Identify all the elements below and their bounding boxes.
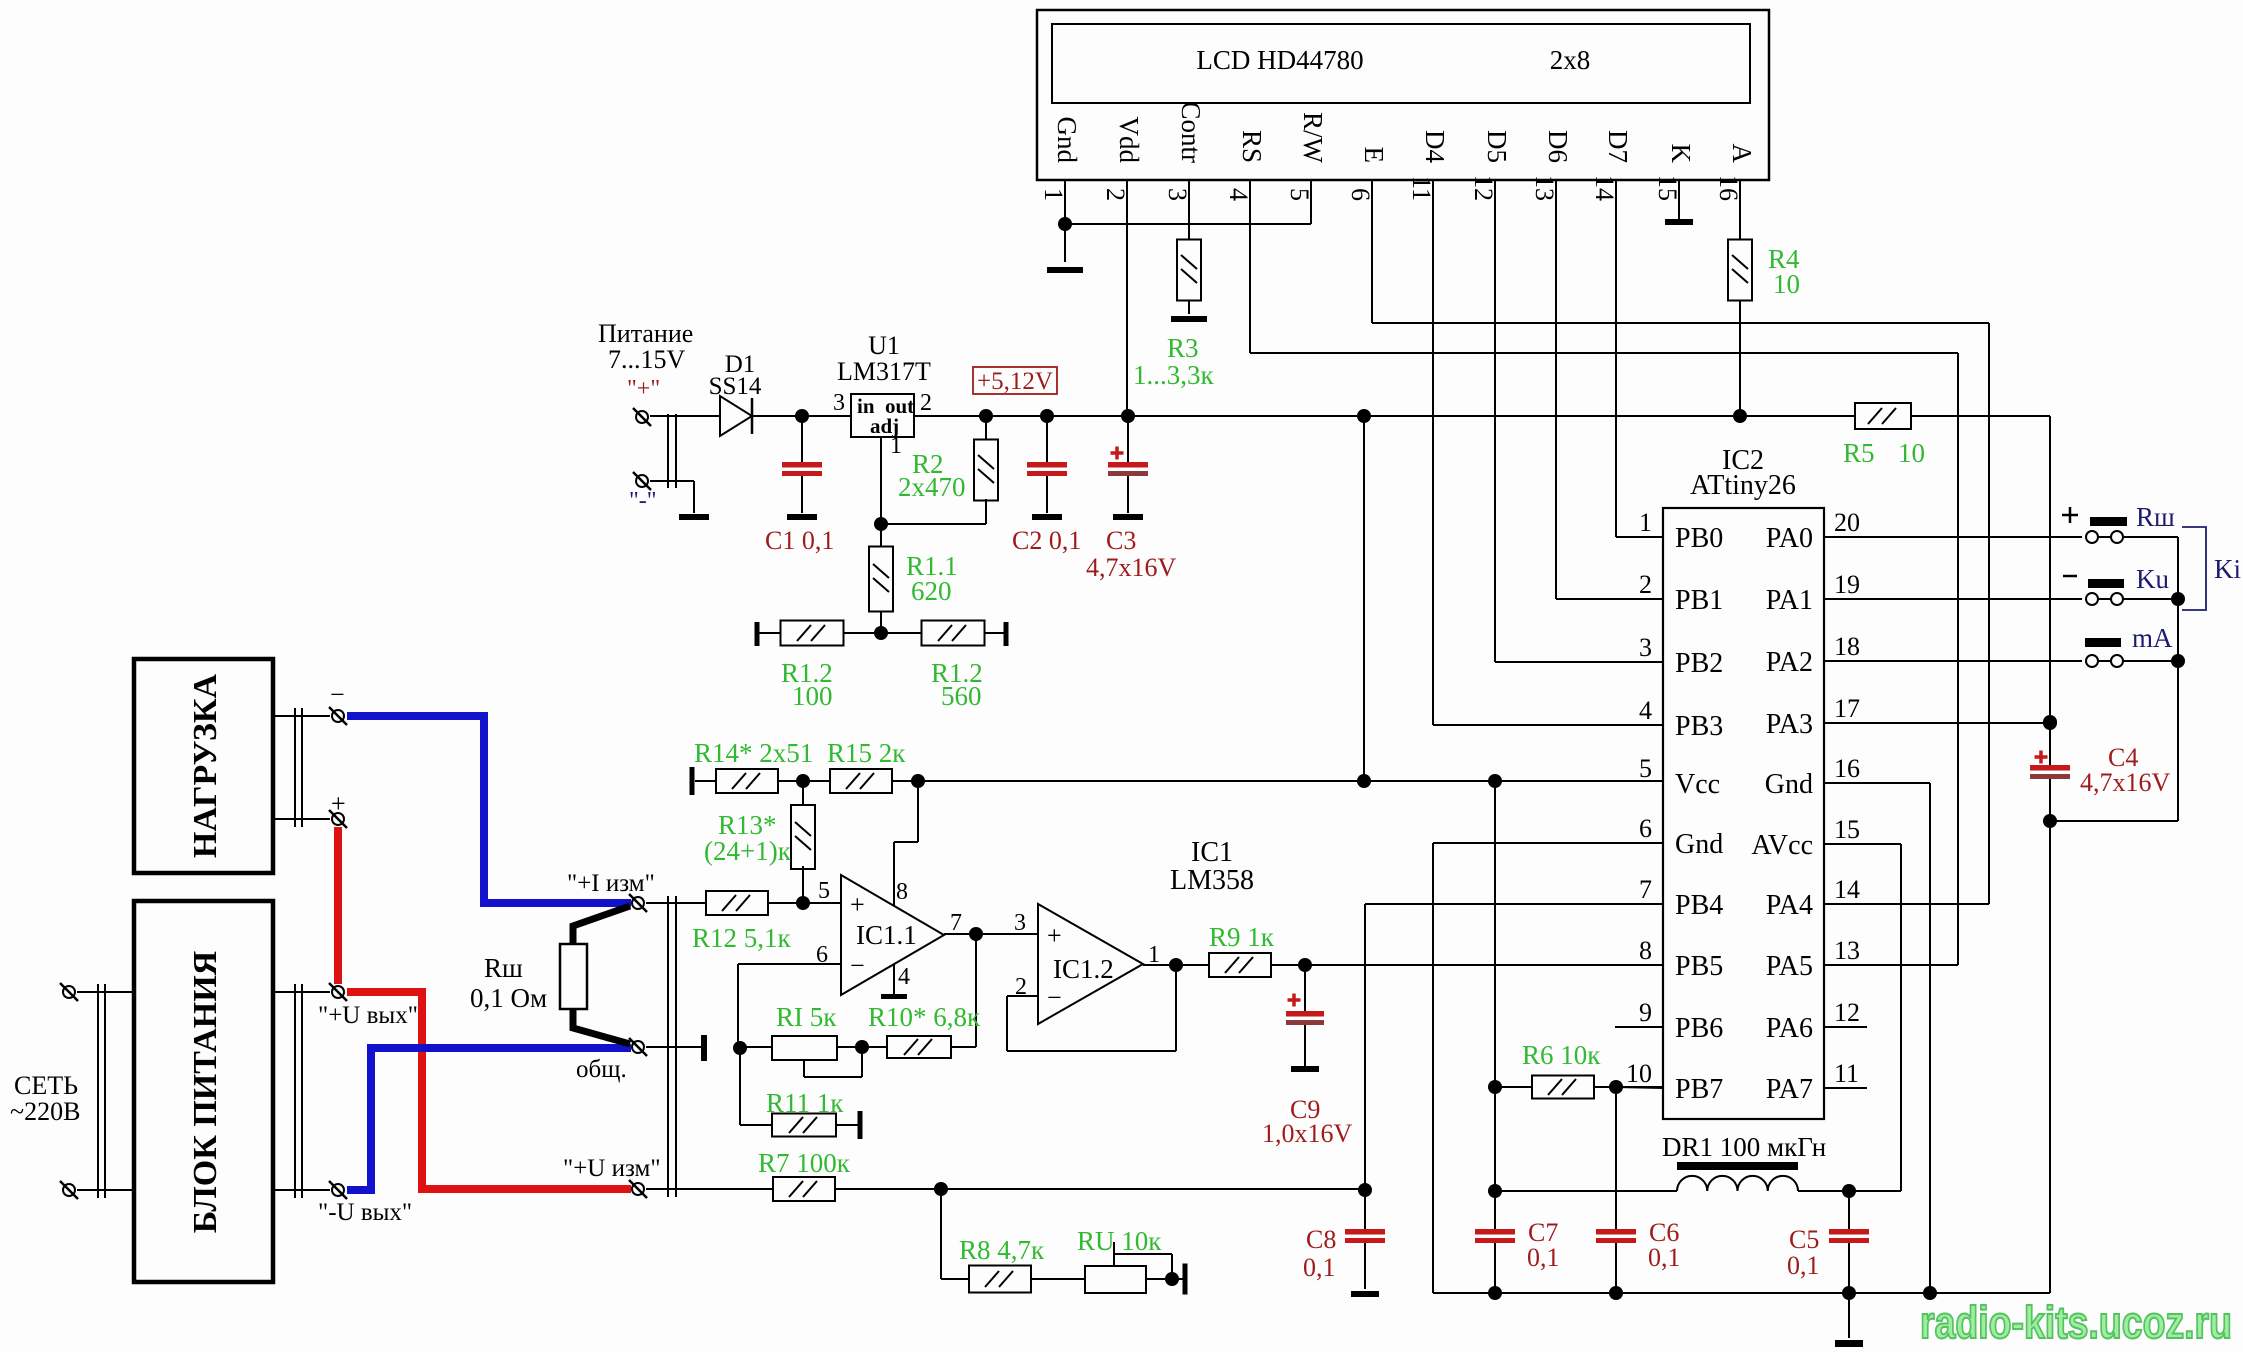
svg-text:1: 1 <box>1039 188 1068 201</box>
svg-text:Gnd: Gnd <box>1675 829 1723 860</box>
svg-text:PA4: PA4 <box>1766 890 1813 921</box>
svg-text:+5,12V: +5,12V <box>977 368 1053 395</box>
svg-text:Ku: Ku <box>2136 564 2169 594</box>
svg-text:radio-kits.ucoz.ru: radio-kits.ucoz.ru <box>1920 1297 2232 1348</box>
svg-text:560: 560 <box>941 681 982 711</box>
svg-text:19: 19 <box>1834 570 1860 599</box>
svg-text:E: E <box>1359 147 1389 164</box>
svg-text:7...15V: 7...15V <box>608 345 686 374</box>
svg-text:IC1.1: IC1.1 <box>856 920 917 950</box>
svg-text:PB1: PB1 <box>1675 585 1723 616</box>
svg-text:Rш: Rш <box>484 953 523 983</box>
svg-text:+: + <box>850 890 865 919</box>
svg-text:Rш: Rш <box>2136 502 2175 532</box>
svg-text:−: − <box>850 951 865 980</box>
svg-text:Gnd: Gnd <box>1052 117 1082 164</box>
svg-text:U1: U1 <box>868 331 900 360</box>
svg-text:R3: R3 <box>1167 333 1199 363</box>
svg-text:1,0x16V: 1,0x16V <box>1262 1119 1353 1148</box>
svg-text:"+I изм": "+I изм" <box>567 870 655 897</box>
svg-text:R6 10к: R6 10к <box>1522 1040 1601 1070</box>
svg-text:14: 14 <box>1834 875 1860 904</box>
svg-text:LCD HD44780: LCD HD44780 <box>1196 45 1363 75</box>
svg-text:R11 1к: R11 1к <box>766 1088 844 1118</box>
svg-text:PB4: PB4 <box>1675 890 1723 921</box>
svg-text:Contr: Contr <box>1176 101 1206 163</box>
svg-text:18: 18 <box>1834 632 1860 661</box>
svg-text:Vcc: Vcc <box>1675 769 1720 800</box>
svg-text:R5: R5 <box>1843 438 1875 468</box>
svg-text:R15 2к: R15 2к <box>827 738 906 768</box>
svg-text:PB7: PB7 <box>1675 1074 1723 1105</box>
svg-text:"+U вых": "+U вых" <box>318 1002 418 1029</box>
svg-text:общ.: общ. <box>576 1056 627 1083</box>
svg-text:13: 13 <box>1530 175 1559 201</box>
svg-text:PB5: PB5 <box>1675 951 1723 982</box>
svg-text:IC1.2: IC1.2 <box>1053 954 1114 984</box>
svg-text:3: 3 <box>1014 910 1026 936</box>
svg-text:0,1: 0,1 <box>1303 1253 1336 1282</box>
svg-text:mA: mA <box>2132 623 2173 653</box>
svg-text:SS14: SS14 <box>709 373 762 400</box>
svg-text:Питание: Питание <box>598 319 693 348</box>
svg-text:D7: D7 <box>1603 130 1633 163</box>
svg-text:2: 2 <box>1101 188 1130 201</box>
svg-text:RI 5к: RI 5к <box>776 1002 837 1032</box>
svg-text:1...3,3к: 1...3,3к <box>1133 360 1215 390</box>
svg-text:5: 5 <box>1639 754 1652 783</box>
svg-text:Gnd: Gnd <box>1765 769 1813 800</box>
svg-text:−: − <box>1047 983 1062 1012</box>
svg-text:4: 4 <box>1639 696 1652 725</box>
svg-text:LM358: LM358 <box>1170 865 1254 896</box>
svg-text:LM317T: LM317T <box>837 357 931 386</box>
svg-text:"-U вых": "-U вых" <box>318 1199 412 1226</box>
svg-text:DR1 100 мкГн: DR1 100 мкГн <box>1662 1132 1826 1162</box>
svg-text:6: 6 <box>1346 188 1375 201</box>
svg-text:СЕТЬ: СЕТЬ <box>14 1071 78 1100</box>
svg-text:+: + <box>331 789 346 818</box>
svg-text:9: 9 <box>1639 998 1652 1027</box>
svg-text:17: 17 <box>1834 694 1860 723</box>
svg-text:0,1: 0,1 <box>1648 1243 1681 1272</box>
svg-text:15: 15 <box>1834 815 1860 844</box>
svg-text:RU 10к: RU 10к <box>1077 1226 1162 1256</box>
svg-text:Vdd: Vdd <box>1114 117 1144 164</box>
svg-text:15: 15 <box>1653 175 1682 201</box>
svg-text:11: 11 <box>1407 176 1436 201</box>
svg-text:+: + <box>1047 921 1062 950</box>
svg-text:0,1 Ом: 0,1 Ом <box>470 983 547 1013</box>
svg-text:C3: C3 <box>1106 526 1136 555</box>
svg-text:100: 100 <box>792 681 833 711</box>
svg-text:RS: RS <box>1237 130 1267 163</box>
svg-text:C8: C8 <box>1306 1225 1336 1254</box>
svg-text:R9 1к: R9 1к <box>1209 922 1275 952</box>
svg-text:3: 3 <box>1163 188 1192 201</box>
svg-text:4,7x16V: 4,7x16V <box>2080 768 2171 797</box>
svg-text:7: 7 <box>950 910 962 936</box>
svg-text:C5: C5 <box>1789 1225 1819 1254</box>
svg-text:11: 11 <box>1834 1059 1859 1088</box>
svg-text:14: 14 <box>1590 175 1619 201</box>
svg-text:3: 3 <box>1639 633 1652 662</box>
svg-text:PA5: PA5 <box>1766 951 1813 982</box>
svg-text:C2 0,1: C2 0,1 <box>1012 526 1081 555</box>
svg-text:PB6: PB6 <box>1675 1013 1723 1044</box>
svg-text:PA0: PA0 <box>1766 523 1813 554</box>
svg-text:D5: D5 <box>1482 130 1512 163</box>
svg-text:10: 10 <box>1626 1059 1652 1088</box>
svg-text:PB2: PB2 <box>1675 648 1723 679</box>
svg-text:Ki: Ki <box>2214 554 2241 584</box>
svg-text:620: 620 <box>911 576 952 606</box>
svg-text:2x8: 2x8 <box>1550 45 1591 75</box>
svg-text:5: 5 <box>1285 188 1314 201</box>
svg-text:20: 20 <box>1834 508 1860 537</box>
svg-text:PB3: PB3 <box>1675 711 1723 742</box>
svg-text:2x470: 2x470 <box>898 472 966 502</box>
svg-text:AVcc: AVcc <box>1751 830 1813 861</box>
svg-text:(24+1)к: (24+1)к <box>704 836 792 866</box>
svg-text:R12 5,1к: R12 5,1к <box>692 923 792 953</box>
svg-text:4,7x16V: 4,7x16V <box>1086 553 1177 582</box>
svg-text:"+U изм": "+U изм" <box>563 1155 661 1182</box>
svg-text:1: 1 <box>1639 508 1652 537</box>
svg-text:2: 2 <box>920 390 932 416</box>
svg-text:4: 4 <box>1224 188 1253 201</box>
svg-text:10: 10 <box>1898 438 1925 468</box>
svg-text:R14* 2x51: R14* 2x51 <box>694 738 813 768</box>
svg-text:3: 3 <box>833 390 845 416</box>
svg-text:16: 16 <box>1834 754 1860 783</box>
svg-text:7: 7 <box>1639 875 1652 904</box>
svg-text:"+": "+" <box>627 376 660 402</box>
svg-text:C1 0,1: C1 0,1 <box>765 526 834 555</box>
svg-text:PA3: PA3 <box>1766 709 1813 740</box>
svg-text:K: K <box>1666 144 1696 164</box>
svg-text:R8 4,7к: R8 4,7к <box>959 1235 1045 1265</box>
svg-text:1: 1 <box>890 433 902 459</box>
svg-text:−: − <box>330 680 345 709</box>
svg-text:2: 2 <box>1639 570 1652 599</box>
svg-text:4: 4 <box>898 964 910 990</box>
svg-text:0,1: 0,1 <box>1527 1243 1560 1272</box>
svg-text:PA6: PA6 <box>1766 1013 1813 1044</box>
svg-text:5: 5 <box>818 878 830 904</box>
svg-text:ATtiny26: ATtiny26 <box>1690 470 1796 501</box>
svg-text:R10* 6,8к: R10* 6,8к <box>868 1002 981 1032</box>
svg-text:12: 12 <box>1834 998 1860 1027</box>
svg-text:IC1: IC1 <box>1191 837 1233 868</box>
svg-text:A: A <box>1727 144 1757 164</box>
svg-text:PA1: PA1 <box>1766 585 1813 616</box>
svg-text:0,1: 0,1 <box>1787 1251 1820 1280</box>
svg-text:D6: D6 <box>1543 130 1573 163</box>
svg-text:8: 8 <box>896 879 908 905</box>
svg-text:БЛОК ПИТАНИЯ: БЛОК ПИТАНИЯ <box>187 951 224 1233</box>
svg-text:16: 16 <box>1714 175 1743 201</box>
svg-text:12: 12 <box>1469 175 1498 201</box>
svg-text:D4: D4 <box>1420 130 1450 163</box>
svg-text:8: 8 <box>1639 936 1652 965</box>
svg-text:PA2: PA2 <box>1766 647 1813 678</box>
svg-text:~220В: ~220В <box>10 1097 80 1126</box>
svg-text:13: 13 <box>1834 936 1860 965</box>
svg-text:10: 10 <box>1773 269 1800 299</box>
svg-text:PA7: PA7 <box>1766 1074 1813 1105</box>
svg-text:PB0: PB0 <box>1675 523 1723 554</box>
svg-text:НАГРУЗКА: НАГРУЗКА <box>187 673 224 858</box>
svg-text:R7 100к: R7 100к <box>758 1148 851 1178</box>
svg-text:R/W: R/W <box>1298 112 1328 164</box>
svg-text:6: 6 <box>1639 814 1652 843</box>
svg-text:"-": "-" <box>629 488 657 514</box>
